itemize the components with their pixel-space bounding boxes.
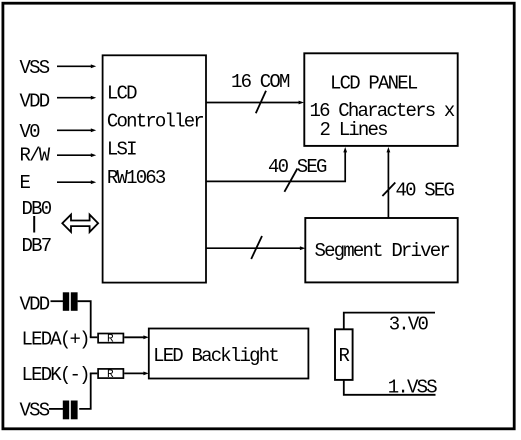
wire capacitor C1 to corner, down to LEDA node: [78, 301, 91, 337]
wire DB0-DB7 range bar: [33, 216, 35, 233]
wire V0 input arrow: [57, 128, 96, 132]
pin label LEDA(+): [22, 328, 89, 350]
pin label DB0: [22, 198, 52, 220]
capacitor C1 (VDD): [63, 292, 78, 311]
pin label 1.VSS: [388, 376, 437, 398]
wire VDD input arrow: [57, 96, 96, 100]
bus slash on 16 COM wire: [256, 91, 266, 114]
wire segment driver to LCD panel (40 SEG): [387, 147, 391, 218]
svg-text:DB0: DB0: [22, 198, 52, 220]
svg-text:40 SEG: 40 SEG: [396, 180, 455, 202]
svg-text:R: R: [339, 345, 350, 367]
svg-text:R: R: [107, 334, 114, 346]
svg-text:DB7: DB7: [22, 235, 51, 257]
LCD panel box: [304, 53, 457, 146]
svg-text:RW1063: RW1063: [107, 167, 166, 189]
pin label 3.V0: [389, 313, 429, 335]
wire R/W input arrow: [57, 153, 96, 157]
label 40 SEG (left): [268, 156, 327, 178]
svg-text:40 SEG: 40 SEG: [268, 156, 327, 178]
wire LEDA node to resistor R1: [90, 336, 98, 338]
bus slash on 40 SEG right wire: [382, 183, 395, 197]
svg-text:V0: V0: [20, 121, 41, 143]
svg-text:R: R: [107, 369, 114, 381]
resistor R1: [98, 334, 123, 346]
wire LEDK node down to VSS capacitor: [79, 373, 91, 409]
svg-text:VDD: VDD: [20, 91, 50, 113]
label 16 COM: [231, 71, 290, 93]
svg-text:2 Lines: 2 Lines: [320, 119, 388, 141]
svg-text:R/W: R/W: [20, 145, 51, 167]
pin label E: [20, 172, 31, 194]
segment driver box: [305, 218, 457, 282]
pin label VSS (backlight): [20, 400, 50, 422]
wire VSS to capacitor: [49, 408, 63, 410]
resistor R2: [98, 369, 123, 381]
wire R3 bottom to pin 1: [344, 381, 436, 395]
pin label R/W: [20, 145, 51, 167]
bus slash on segment driver wire: [251, 236, 262, 259]
svg-text:LCD PANEL: LCD PANEL: [330, 72, 418, 94]
wire E input arrow: [57, 180, 96, 184]
wire controller to segment driver: [206, 246, 305, 250]
svg-text:16 COM: 16 COM: [231, 71, 290, 93]
wire resistor R1 to LED backlight: [124, 335, 149, 339]
LED backlight box: [149, 329, 309, 379]
svg-text:LEDK(-): LEDK(-): [22, 364, 89, 386]
wire controller to LCD panel (16 COM): [206, 101, 304, 105]
bus slash on 40 SEG left wire: [284, 169, 297, 192]
svg-text:VSS: VSS: [20, 57, 50, 79]
svg-text:LEDA(+): LEDA(+): [22, 328, 89, 350]
svg-text:LSI: LSI: [107, 139, 136, 161]
pin label DB7: [22, 235, 51, 257]
wire LEDK node to resistor R2: [90, 372, 98, 374]
wire R3 top to pin 3: [344, 313, 435, 329]
wire VDD to capacitor: [51, 300, 64, 302]
svg-text:Segment Driver: Segment Driver: [315, 240, 450, 262]
svg-text:Controller: Controller: [107, 111, 203, 133]
pin label V0: [20, 121, 41, 143]
pin label LEDK(-): [22, 364, 89, 386]
resistor R3 (contrast): [335, 329, 353, 380]
wire controller to LCD panel bottom (40 SEG): [206, 147, 347, 181]
svg-text:1.VSS: 1.VSS: [388, 376, 437, 398]
wire resistor R2 to LED backlight: [124, 372, 149, 376]
pin label VDD (backlight): [20, 293, 50, 315]
pin label VSS: [20, 57, 50, 79]
svg-text:LCD: LCD: [107, 82, 137, 104]
svg-text:LED Backlight: LED Backlight: [153, 345, 278, 367]
label 40 SEG (right): [396, 180, 455, 202]
svg-text:3.V0: 3.V0: [389, 313, 429, 335]
LCD controller U1 box: [103, 55, 206, 282]
pin label VDD: [20, 91, 50, 113]
capacitor C2 (VSS): [63, 401, 78, 420]
bidirectional bus arrow DB0-DB7: [62, 215, 98, 232]
svg-text:E: E: [20, 172, 31, 194]
wire VSS input arrow: [57, 64, 96, 68]
svg-text:VDD: VDD: [20, 293, 50, 315]
svg-text:VSS: VSS: [20, 400, 50, 422]
